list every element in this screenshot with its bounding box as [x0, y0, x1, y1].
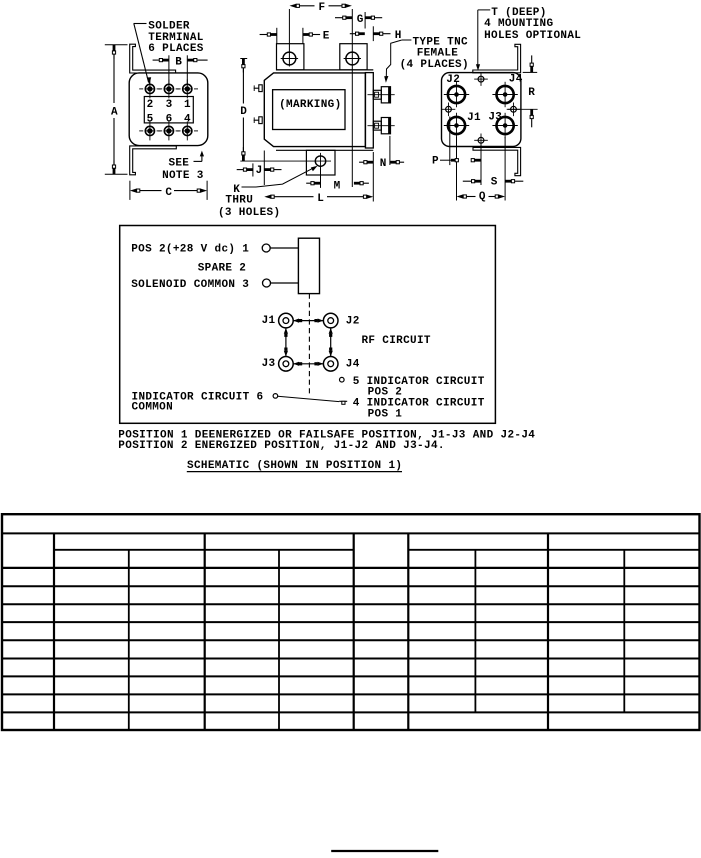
RF path J1-J2 (double arrow) — [293, 320, 323, 322]
svg-text:P: P — [432, 156, 439, 168]
solenoid coil rectangle — [298, 238, 319, 293]
svg-text:3: 3 — [166, 99, 173, 111]
indicator common terminal 6 circle — [273, 394, 278, 399]
svg-text:(4 PLACES): (4 PLACES) — [400, 59, 469, 71]
svg-text:(MARKING): (MARKING) — [279, 99, 341, 111]
switch arm wire 6 to 4 — [278, 396, 339, 401]
right tab hole — [346, 52, 359, 65]
svg-text:POS 2(+28 V dc) 1: POS 2(+28 V dc) 1 — [131, 244, 249, 256]
svg-text:D: D — [240, 106, 247, 118]
middle view right side plate — [365, 73, 373, 148]
svg-text:TYPE TNC: TYPE TNC — [413, 37, 468, 49]
svg-text:SPARE 2: SPARE 2 — [198, 262, 246, 274]
right view body (TNC face) — [442, 73, 521, 147]
svg-text:M: M — [334, 180, 341, 192]
dimension D ticks — [240, 58, 247, 60]
TNC connector side view upper — [373, 90, 381, 99]
dimension L line with arrows — [271, 196, 314, 198]
RF path J2-J4 (double arrow) — [330, 328, 332, 357]
left hole extension line — [449, 117, 451, 166]
dimension C line with arrows — [136, 190, 161, 192]
table row lines — [2, 585, 700, 587]
RF path J1-J3 (double arrow) — [285, 328, 287, 357]
leader: SEE NOTE 3 — [194, 160, 202, 162]
small mounting hole bottom — [478, 137, 484, 143]
middle view right mounting tab — [340, 44, 367, 70]
TNC connector J3 (face) — [497, 117, 514, 134]
dimension R tick through right hole — [508, 108, 538, 110]
dimension A line with arrows — [113, 52, 115, 103]
svg-text:SCHEMATIC (SHOWN IN POSITION 1: SCHEMATIC (SHOWN IN POSITION 1) — [187, 460, 402, 472]
dimension J arrows (outside) — [237, 169, 244, 171]
terminal numbering rectangle — [144, 97, 193, 123]
dimension E extension lines — [276, 28, 278, 44]
solder terminal 3 (circle with centerlines) — [164, 84, 173, 93]
svg-text:J4: J4 — [509, 73, 523, 85]
middle view top plate — [276, 69, 373, 71]
svg-text:POS 1: POS 1 — [368, 409, 403, 421]
left tab hole — [283, 52, 296, 65]
terminal 3 circle — [263, 279, 271, 287]
N right extension (connector tip) — [389, 136, 391, 165]
dimension M arrows — [306, 182, 311, 184]
dimension A extension ticks — [105, 44, 128, 46]
dimension N arrows (outside) — [359, 161, 364, 163]
svg-text:POS 2: POS 2 — [368, 386, 402, 398]
indicator contact 4 symbol — [339, 400, 347, 402]
actuator dashed line — [308, 294, 310, 396]
dimension E arrows (outside) — [260, 34, 268, 36]
leader K to thru-hole — [242, 186, 257, 188]
svg-text:TERMINAL: TERMINAL — [148, 32, 203, 44]
middle view body — [264, 73, 365, 147]
left view bottom mounting flange (bent bracket) — [130, 146, 177, 175]
bottom tab hole (K thru hole) — [315, 156, 325, 166]
RF port J1 (schematic) — [279, 313, 294, 328]
svg-text:J3: J3 — [262, 358, 276, 370]
svg-text:NOTE 3: NOTE 3 — [162, 170, 204, 182]
svg-text:S: S — [491, 176, 498, 188]
small mounting hole left — [446, 106, 452, 112]
solder terminal 4 (circle with centerlines) — [183, 126, 192, 135]
solder terminal 6 (circle with centerlines) — [164, 126, 173, 135]
terminal 1 circle — [262, 244, 270, 252]
svg-text:F: F — [319, 2, 326, 14]
svg-text:C: C — [165, 187, 172, 199]
right view top flange — [473, 44, 521, 73]
bottom hole extension line — [480, 145, 482, 186]
middle view bottom plate — [276, 149, 373, 151]
leader: T (DEEP) mounting holes — [478, 9, 490, 11]
svg-text:SOLENOID COMMON 3: SOLENOID COMMON 3 — [131, 279, 249, 291]
wire terminal 3 to coil — [271, 282, 299, 284]
svg-text:A: A — [111, 107, 118, 119]
small mounting hole top — [478, 76, 484, 82]
right tab hole centerline extension (F,G,M) — [351, 9, 353, 187]
svg-text:HOLES OPTIONAL: HOLES OPTIONAL — [484, 30, 581, 42]
schematic enclosure box — [120, 226, 496, 424]
table header bottom line — [2, 567, 700, 569]
RF port J3 (schematic) — [279, 357, 294, 372]
svg-text:THRU: THRU — [225, 194, 252, 206]
svg-text:J: J — [256, 165, 263, 177]
svg-text:1: 1 — [184, 99, 191, 111]
dimension D line with arrows — [242, 66, 244, 104]
TNC connector J4 (face) — [497, 86, 514, 103]
svg-text:E: E — [323, 31, 330, 43]
svg-text:J4: J4 — [346, 359, 360, 371]
left solder terminal stub lower — [259, 117, 262, 124]
footer rule — [331, 850, 438, 852]
L/N right extension line — [372, 152, 374, 202]
svg-text:B: B — [175, 56, 182, 68]
svg-text:RF CIRCUIT: RF CIRCUIT — [362, 335, 431, 347]
RF port J4 (schematic) — [323, 357, 338, 372]
left solder terminal stub upper — [259, 85, 262, 92]
table main column lines — [53, 533, 55, 730]
dimension R arrows (outside) — [531, 55, 533, 63]
middle view bottom mounting tab — [306, 150, 335, 175]
dimension S arrows (outside) — [463, 180, 472, 182]
svg-text:J1: J1 — [262, 315, 276, 327]
svg-text:2: 2 — [147, 99, 154, 111]
dimension table outer border — [2, 514, 700, 730]
svg-text:Q: Q — [479, 191, 486, 203]
svg-text:J1: J1 — [467, 112, 481, 124]
dimension C extension lines — [129, 181, 131, 200]
RF path J3-J4 (double arrow) — [293, 363, 323, 365]
svg-text:SEE: SEE — [169, 158, 190, 170]
bottom tab hole centerline down (M extension) — [320, 166, 322, 188]
svg-text:4 MOUNTING: 4 MOUNTING — [484, 18, 553, 30]
dimension B arrows (outside) — [153, 59, 160, 61]
small mounting hole right — [511, 106, 517, 112]
dimension Q line with arrows — [463, 196, 476, 198]
J1/J3 column extension lines — [456, 137, 458, 201]
middle view left mounting tab — [277, 44, 304, 70]
svg-text:6 PLACES: 6 PLACES — [148, 43, 203, 55]
RF port J2 (schematic) — [323, 313, 338, 328]
svg-text:FEMALE: FEMALE — [417, 48, 459, 60]
dimension B extension lines — [168, 55, 170, 84]
marking rectangle — [273, 90, 345, 130]
leader: TYPE TNC (4 PLACES) — [402, 39, 412, 41]
svg-text:SOLDER: SOLDER — [148, 21, 190, 33]
svg-text:POSITION 2 ENERGIZED POSITION,: POSITION 2 ENERGIZED POSITION, J1-J2 AND… — [118, 440, 444, 452]
solder terminal 1 (circle with centerlines) — [183, 84, 192, 93]
svg-text:G: G — [357, 14, 364, 26]
G right extension line — [364, 12, 366, 29]
dimension F line with arrows — [296, 5, 315, 7]
left view top mounting flange (bent bracket) — [130, 44, 176, 73]
svg-text:J3: J3 — [488, 112, 502, 124]
svg-text:R: R — [528, 87, 535, 99]
TNC connector J2 (face) — [448, 86, 465, 103]
right view bottom flange — [473, 147, 521, 175]
svg-text:J2: J2 — [346, 316, 360, 328]
svg-text:N: N — [380, 158, 387, 170]
dimension G arrows (outside) — [335, 17, 343, 19]
TNC connector J1 (face) — [448, 117, 465, 134]
svg-text:L: L — [317, 193, 324, 205]
table sub-column lines right half (merged last row) — [474, 550, 476, 713]
left view body (solder-terminal side) — [129, 73, 208, 146]
dimension J extension lines — [252, 163, 254, 176]
table title row line — [2, 532, 700, 534]
wire terminal 1 to coil — [270, 247, 298, 249]
indicator contact 5 circle — [340, 377, 345, 382]
H right extension line — [372, 26, 374, 41]
svg-text:COMMON: COMMON — [132, 402, 173, 414]
leader: SOLDER TERMINAL 6 PLACES — [134, 23, 147, 25]
F/G extension line (left tab hole centerline) — [288, 9, 290, 67]
dimension R top tick — [523, 71, 538, 73]
solder terminal 5 (circle with centerlines) — [145, 126, 154, 135]
TNC connector side view lower — [373, 121, 381, 130]
solder terminal 2 (circle with centerlines) — [145, 84, 154, 93]
svg-text:(3 HOLES): (3 HOLES) — [218, 207, 280, 219]
table subheader line — [54, 549, 354, 551]
dimension P arrows — [440, 159, 451, 161]
dimension H arrows (outside) — [350, 33, 356, 35]
table sub-column lines left half — [128, 550, 130, 730]
svg-text:J2: J2 — [446, 74, 460, 86]
